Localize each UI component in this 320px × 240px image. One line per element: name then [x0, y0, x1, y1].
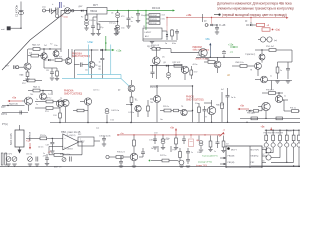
- resistor R53: [40, 137, 47, 140]
- op-amp output wire: [79, 141, 82, 143]
- svg-text:РЗЗ 1ОР: РЗЗ 1ОР: [151, 45, 160, 47]
- ground C36: [102, 143, 106, 145]
- wire v from top cluster: [60, 22, 62, 52]
- wire pvu out: [94, 140, 100, 142]
- resistor R38 vertical: [210, 136, 212, 142]
- svg-text:ОУТ2: ОУТ2: [1, 114, 8, 116]
- ground c17: [45, 163, 49, 165]
- capacitor C17: [45, 157, 49, 159]
- svg-text:У5: У5: [143, 26, 145, 28]
- potentiometer P1: [6, 157, 11, 162]
- red v drop right: [270, 128, 272, 131]
- svg-text:СМ8 1Ок: СМ8 1Ок: [235, 62, 244, 64]
- svg-text:SМD-ТОЗ(ТО92): SМD-ТОЗ(ТО92): [186, 100, 204, 102]
- wire collector up: [27, 49, 29, 63]
- wire v 192: [192, 86, 194, 122]
- power resistor R52 big: [15, 130, 24, 147]
- resistor R14 vertical: [276, 67, 279, 73]
- wire base left v: [73, 50, 75, 79]
- potentiometer P3: [28, 157, 33, 162]
- wire to connector: [146, 14, 149, 16]
- capacitor base: [74, 64, 79, 66]
- wire +48V red rail: [167, 17, 286, 19]
- wire red rail bottom: [118, 134, 222, 136]
- svg-text:Д9: Д9: [118, 90, 120, 92]
- capacitor C45: [203, 109, 207, 111]
- wire bus bottom 3: [271, 161, 294, 163]
- resistor R70 vertical: [131, 92, 133, 97]
- capacitor C12: [101, 50, 103, 58]
- svg-text:РД 1О4: РД 1О4: [150, 15, 157, 17]
- wire red drop to LM: [166, 18, 168, 27]
- wire q12 emitter: [261, 60, 263, 63]
- transistor pair Q3: [260, 37, 265, 42]
- wire ground bus bottom: [0, 166, 300, 168]
- svg-text:(Т): (Т): [162, 57, 165, 59]
- svg-text:+12в: +12в: [116, 50, 122, 53]
- svg-text:РВ2(М): РВ2(М): [228, 156, 235, 158]
- svg-text:RD 104: RD 104: [152, 7, 161, 10]
- svg-text:Т6б: Т6б: [150, 102, 153, 104]
- wire green vertical drop: [145, 10, 147, 12]
- wire lower: [43, 62, 45, 68]
- svg-text:1к: 1к: [284, 96, 286, 98]
- diode D6: [100, 49, 102, 51]
- terminal circle J2: [205, 24, 208, 27]
- transistor Q24: [266, 148, 271, 153]
- resistor R68 vertical: [221, 92, 223, 103]
- svg-text:18: 18: [263, 148, 265, 150]
- resistor RL1: [265, 130, 267, 135]
- capacitor C40: [186, 159, 190, 161]
- wire bottom row: [267, 80, 292, 82]
- resistor R65: [164, 109, 171, 112]
- svg-text:С11: С11: [46, 70, 49, 72]
- capacitor C46 right: [226, 95, 230, 97]
- capacitor C38: [119, 161, 123, 163]
- svg-text:+12: +12: [48, 152, 51, 154]
- capacitor C6b electrolytic: [117, 22, 119, 26]
- connector bar 1: [1, 153, 3, 165]
- wire long horizontal lower: [50, 122, 197, 124]
- svg-text:Т6: Т6: [181, 106, 183, 108]
- wire red drop: [211, 18, 213, 24]
- svg-text:РG 1О5: РG 1О5: [150, 19, 157, 21]
- wire cluster: [46, 10, 50, 12]
- resistor R11 red: [262, 28, 270, 31]
- svg-text:1Ои: 1Ои: [109, 23, 113, 25]
- transistor Q29: [275, 95, 282, 102]
- transistor Q14: [261, 76, 268, 83]
- diode D8: [166, 65, 168, 67]
- ground pots: [6, 163, 10, 165]
- svg-text:SМD-ТОЗ(ТО92): SМD-ТОЗ(ТО92): [64, 93, 82, 96]
- wire bus bottom 2: [271, 157, 280, 159]
- svg-text:Р65 1к: Р65 1к: [163, 106, 169, 108]
- transistor Q31: [128, 85, 135, 92]
- svg-text:РД5 2к7: РД5 2к7: [32, 45, 41, 47]
- switch arrow: [51, 9, 57, 14]
- resistor R37 vertical: [175, 136, 177, 139]
- transistor Q28 big: [207, 106, 215, 114]
- ground C7: [126, 25, 130, 27]
- wire emitter down: [91, 68, 93, 79]
- feedback resistor R54: [54, 153, 63, 156]
- svg-text:2к: 2к: [36, 104, 38, 106]
- resistor R33b: [152, 47, 160, 50]
- ground C8: [136, 20, 140, 22]
- capacitor C4: [91, 25, 95, 27]
- capacitor C32: [183, 136, 185, 140]
- svg-text:+1(а): +1(а): [275, 30, 281, 32]
- ground out stage: [179, 165, 183, 167]
- diode D1: [81, 10, 83, 12]
- potentiometer P2: [12, 157, 17, 162]
- block PVU: [78, 137, 94, 146]
- transistor Q4: [41, 53, 47, 59]
- wire to battery: [10, 27, 21, 29]
- svg-text:Р37: Р37: [173, 150, 176, 152]
- capacitor C31 electrolytic: [162, 136, 164, 139]
- regulator U7 78M12: [87, 8, 107, 15]
- capacitor C2 electrolytic: [86, 20, 88, 21]
- red arrow wire: [9, 100, 22, 102]
- resistor R32: [251, 117, 258, 120]
- battery node square: [7, 27, 10, 30]
- svg-text:1и: 1и: [131, 17, 133, 19]
- ground C2: [84, 27, 88, 29]
- pole circle: [55, 14, 59, 18]
- svg-text:ОУТ: ОУТ: [5, 65, 10, 67]
- capacitor C39: [186, 151, 190, 153]
- svg-text:1к: 1к: [280, 70, 282, 72]
- capacitor C34 electrolytic: [198, 136, 200, 141]
- svg-text:1и 1к: 1и 1к: [231, 97, 236, 99]
- cyan diagonal: [120, 75, 122, 79]
- transistor Q20: [84, 98, 91, 105]
- svg-text:РД-В 546: РД-В 546: [9, 104, 19, 106]
- svg-text:16: 16: [263, 161, 265, 163]
- capacitor C8: [137, 10, 139, 12]
- capacitor C11 + resistor pair: [50, 71, 54, 73]
- terminal circle out: [16, 66, 19, 69]
- wire red drop2: [250, 18, 252, 23]
- svg-text:О.22: О.22: [110, 120, 114, 122]
- ground C47: [50, 150, 54, 152]
- svg-text:1и: 1и: [151, 148, 153, 150]
- resistor R47: [162, 159, 169, 162]
- svg-text:СР1 СР2: СР1 СР2: [4, 154, 12, 156]
- wire tick near G: [202, 14, 204, 22]
- ground power res: [18, 150, 22, 154]
- svg-text:1к5: 1к5: [85, 70, 88, 72]
- junction circle: [72, 10, 74, 12]
- transistor Q8 big: [88, 61, 95, 68]
- svg-text:1Ои: 1Ои: [54, 45, 57, 47]
- svg-text:Р54 1Ок: Р54 1Ок: [63, 154, 70, 156]
- connector bar 2: [5, 153, 7, 165]
- cyan net horizontal bottom: [77, 74, 121, 76]
- transistor Q17: [25, 97, 33, 105]
- capacitor plates top cluster: [49, 9, 51, 13]
- resistor RL5: [293, 130, 295, 135]
- diode D3: [210, 24, 212, 26]
- ground Q22: [132, 165, 136, 167]
- wire psu input: [61, 10, 87, 12]
- svg-text:4ООи: 4ООи: [193, 64, 198, 66]
- svg-text:(через Т1О): (через Т1О): [196, 165, 207, 167]
- transistor Q16: [40, 93, 47, 100]
- wire green out: [106, 49, 113, 51]
- ground C6: [115, 31, 119, 33]
- svg-text:ОВЗ(Рц): ОВЗ(Рц): [251, 156, 259, 158]
- svg-text:4к7: 4к7: [221, 89, 224, 91]
- resistor R31: [292, 110, 299, 113]
- svg-text:7: 7: [80, 139, 81, 141]
- resistor R6: [171, 29, 173, 30]
- capacitor C50: [152, 66, 154, 72]
- blue bars: [59, 2, 61, 8]
- wire from caps down: [157, 146, 159, 152]
- wire junction mid: [99, 21, 118, 23]
- capacitor out: [13, 65, 15, 69]
- green arrow end: [173, 9, 175, 11]
- transistor Q25: [266, 155, 271, 160]
- svg-text:Тактовый(ОУТ): Тактовый(ОУТ): [202, 155, 218, 158]
- wire mid row 65: [150, 65, 182, 67]
- resistor RG2: [174, 64, 182, 67]
- LED D10: [265, 141, 267, 143]
- svg-text:ТЗ(ВС547): ТЗ(ВС547): [245, 54, 255, 56]
- svg-text:Р42: Р42: [78, 134, 81, 136]
- svg-text:1н: 1н: [270, 76, 272, 78]
- svg-text:Д6: Д6: [164, 62, 166, 64]
- red rail arrowhead: [286, 17, 288, 19]
- svg-text:РВ1(М): РВ1(М): [228, 162, 235, 164]
- svg-text:1Ои: 1Ои: [121, 28, 124, 30]
- resistor R12: [27, 79, 35, 82]
- svg-text:1н: 1н: [43, 153, 45, 155]
- regulator U2 LM317: [143, 28, 162, 39]
- svg-text:Т7: Т7: [205, 117, 207, 119]
- svg-text:МСУТ(Р): МСУТ(Р): [251, 150, 260, 152]
- svg-text:SМD-ТОЗ(ТО92): SМD-ТОЗ(ТО92): [72, 55, 90, 58]
- capacitor C44: [105, 109, 109, 112]
- resistor R36: [269, 92, 276, 95]
- resistor R5b: [31, 54, 39, 57]
- input terminal circle: [106, 155, 109, 158]
- mcu divider: [249, 146, 251, 168]
- svg-text:2к2: 2к2: [44, 45, 47, 47]
- LED D11: [272, 141, 274, 143]
- svg-text:Uбат: Uбат: [88, 40, 95, 44]
- resistor R45: [116, 156, 123, 159]
- svg-text:С6: С6: [111, 13, 113, 15]
- node dot: [216, 24, 217, 25]
- svg-text:АDJ: АDJ: [145, 35, 149, 38]
- transistor Q13: [255, 63, 262, 70]
- capacitor C14: [286, 68, 290, 70]
- ground psu: [91, 33, 95, 35]
- svg-text:1ОО: 1ОО: [53, 115, 57, 117]
- wire green v mid: [105, 36, 107, 50]
- svg-text:Р5О 4к7: Р5О 4к7: [266, 46, 275, 48]
- capacitor C48: [223, 55, 225, 58]
- svg-text:О +48: О +48: [219, 25, 226, 27]
- annotation bullet: [218, 14, 220, 16]
- capacitor C36: [102, 138, 106, 140]
- resistor R18 v: [147, 106, 150, 111]
- ground R8: [25, 78, 29, 80]
- svg-text:1и: 1и: [131, 21, 133, 23]
- transistor Q26: [154, 96, 161, 103]
- svg-text:Р55: Р55: [60, 154, 63, 156]
- svg-text:СЗ6 1и 4м7н: СЗ6 1и 4м7н: [99, 136, 111, 138]
- svg-text:С4О 1Ои: С4О 1Ои: [161, 139, 169, 141]
- wire led bus: [265, 129, 300, 131]
- capacitor C1 electrolytic: [18, 11, 23, 14]
- svg-text:1н: 1н: [191, 152, 193, 154]
- transistor Q23 small: [179, 160, 184, 165]
- svg-text:МОУТ: МОУТ: [231, 150, 237, 152]
- svg-text:ОУТ: ОУТ: [1, 107, 6, 109]
- wire row 57: [196, 56, 240, 58]
- resistor R16: [77, 109, 84, 112]
- wire lm in: [162, 30, 167, 32]
- resistor R17 vertical: [59, 113, 62, 118]
- svg-text:обм: обм: [42, 7, 46, 9]
- resistor R51: [46, 107, 53, 110]
- resistor RL4: [286, 130, 288, 135]
- red v arrow: [29, 143, 31, 148]
- svg-text:РЗ1 1к: РЗ1 1к: [290, 108, 296, 110]
- svg-text:1ОООи: 1ОООи: [89, 20, 96, 22]
- ground C38: [119, 165, 123, 167]
- capacitor out3: [19, 111, 21, 115]
- svg-text:Т4б: Т4б: [30, 94, 33, 96]
- svg-text:1к: 1к: [36, 99, 38, 101]
- cap plate marks: [19, 10, 24, 12]
- svg-text:Д5: Д5: [46, 57, 48, 59]
- svg-text:МУ7: МУ7: [93, 4, 99, 7]
- wire long bottom extend: [197, 121, 300, 123]
- green node: [149, 160, 151, 162]
- diode D2 vertical: [166, 31, 168, 34]
- svg-text:(вывод ОУТ2): (вывод ОУТ2): [198, 162, 212, 164]
- wire green +12 rail: [107, 10, 173, 12]
- mcu pin1 dot: [227, 147, 230, 150]
- svg-text:ТL#41(1/2): ТL#41(1/2): [67, 135, 76, 137]
- LED D14: [293, 141, 295, 143]
- svg-text:Р1О 4к7: Р1О 4к7: [54, 57, 63, 59]
- ground C10: [215, 31, 219, 33]
- wire into mcu 1: [220, 157, 226, 159]
- capacitor C5b: [114, 28, 118, 30]
- capacitor C47: [51, 138, 53, 142]
- svg-text:Дополнил и изменился: Для конт: Дополнил и изменился: Для контроллера 48…: [217, 1, 292, 5]
- LED D15: [298, 141, 300, 143]
- resistor R69: [254, 110, 259, 113]
- svg-text:С44 1Ои: С44 1Ои: [111, 110, 119, 112]
- resistor R4: [33, 89, 40, 92]
- transistor Q18: [62, 99, 69, 106]
- svg-text:РЗ6 4О7: РЗ6 4О7: [266, 90, 275, 92]
- wire down q11: [184, 74, 186, 81]
- wire power res: [19, 125, 21, 130]
- svg-text:78М12: 78М12: [90, 11, 98, 13]
- component bars: [55, 8, 57, 14]
- capacitor C49 electrolytic: [168, 66, 170, 73]
- svg-text:+(з): +(з): [230, 52, 234, 54]
- op-amp U3: [63, 134, 79, 150]
- capacitor C16: [35, 157, 37, 162]
- svg-text:Р53 1к: Р53 1к: [40, 135, 46, 137]
- wire mid h: [74, 49, 98, 51]
- transistor Q7: [65, 58, 71, 64]
- node psu in: [86, 10, 87, 11]
- svg-text:(м): (м): [274, 40, 277, 42]
- svg-text:РИ1О: РИ1О: [287, 131, 292, 133]
- svg-text:Т8: Т8: [250, 70, 252, 72]
- red arrow left 2: [239, 108, 249, 110]
- resistor RL2: [272, 130, 274, 135]
- wire bottom long: [251, 165, 300, 167]
- svg-text:РД 1О6: РД 1О6: [150, 23, 157, 25]
- red v arrow up +5: [175, 130, 177, 136]
- resistor RL3: [279, 130, 281, 135]
- svg-text:(первый выходной наружу, цвет: (первый выходной наружу, цвет по проводу…: [222, 13, 287, 17]
- transistor Q12: [259, 54, 265, 60]
- resistor R5: [33, 48, 40, 51]
- capacitor C9: [176, 29, 178, 32]
- wire bus bottom 1: [266, 152, 273, 154]
- resistor R15: [208, 61, 215, 64]
- resistor R10: [55, 59, 62, 62]
- red rail end arrow: [220, 133, 224, 137]
- wire row 118: [240, 117, 300, 119]
- svg-text:Д4: Д4: [245, 21, 247, 23]
- svg-text:1н: 1н: [214, 151, 216, 153]
- svg-text:10цФ: 10цФ: [141, 14, 146, 17]
- wire down from cluster: [60, 10, 62, 22]
- svg-text:+48в: +48в: [186, 14, 192, 17]
- cyan net vertical 1: [88, 45, 90, 75]
- wire v right edge: [291, 50, 293, 62]
- resistor R49: [46, 100, 53, 103]
- svg-text:РН9О6: РН9О6: [186, 96, 195, 99]
- transistor Q15: [214, 61, 221, 68]
- resistor R8 vertical: [27, 70, 29, 72]
- red rail node dots: [117, 134, 119, 136]
- svg-text:1О4: 1О4: [162, 15, 165, 17]
- svg-text:1и: 1и: [165, 43, 167, 45]
- green arrow mid: [112, 49, 114, 51]
- transistor Q22: [130, 153, 138, 161]
- svg-text:С16 1и: С16 1и: [26, 154, 32, 156]
- wire into mcu 2: [220, 163, 226, 165]
- capacitor C6 electrolytic: [117, 10, 119, 12]
- svg-text:РД4 1к: РД4 1к: [33, 87, 40, 89]
- ic U2 mcu box: [226, 146, 262, 168]
- ground c16: [28, 163, 32, 165]
- capacitor C33 electrolytic pink: [190, 136, 192, 139]
- svg-text:ДМ7: ДМ7: [79, 6, 83, 8]
- terminal T1 circle: [43, 9, 46, 12]
- svg-text:С1 47ООи: С1 47ООи: [16, 4, 19, 17]
- resistor R66: [174, 109, 179, 112]
- svg-text:Р2: Р2: [81, 17, 83, 19]
- diode D7: [246, 110, 248, 112]
